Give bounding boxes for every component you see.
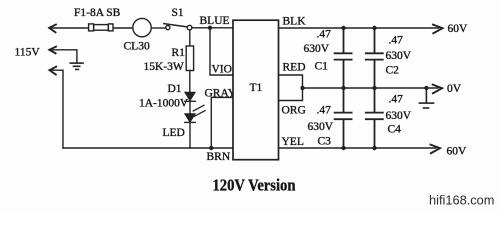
svg-text:BLUE: BLUE: [200, 15, 230, 27]
ground (mains earth): [70, 63, 83, 69]
resistor R1: [186, 46, 193, 71]
svg-text:.47: .47: [389, 35, 404, 47]
svg-text:C4: C4: [388, 124, 402, 136]
capacitor C2: [366, 28, 383, 88]
svg-text:YEL: YEL: [282, 136, 304, 148]
svg-text:115V: 115V: [15, 47, 41, 59]
node: C4 bottom: [372, 146, 376, 150]
svg-text:BLK: BLK: [283, 16, 307, 28]
svg-text:630V: 630V: [308, 121, 334, 133]
node: C2 top: [372, 26, 376, 30]
svg-text:F1-8A SB: F1-8A SB: [74, 7, 121, 19]
svg-text:C1: C1: [315, 61, 329, 73]
node: BLUE/VIO junction: [208, 26, 212, 30]
capacitor C3: [335, 88, 352, 148]
svg-text:0V: 0V: [447, 83, 462, 95]
svg-text:BRN: BRN: [207, 151, 231, 163]
node: C3 bottom: [341, 146, 345, 150]
node arrow 0V: [433, 85, 443, 94]
svg-text:hifi168.com: hifi168.com: [429, 193, 494, 208]
node: C2 bottom: [372, 86, 376, 90]
diode D1: [185, 92, 195, 101]
node arrow hot: [49, 25, 56, 33]
wire: junction down to VIO pin: [210, 28, 233, 75]
capacitor C4: [366, 88, 383, 148]
ground (0V): [419, 88, 433, 108]
node arrow 60V bottom: [431, 145, 441, 154]
wire: bottom rail (neutral) to BRN pin: [63, 147, 233, 149]
svg-text:CL30: CL30: [124, 41, 150, 53]
svg-text:LED: LED: [163, 127, 185, 139]
svg-text:60V: 60V: [448, 23, 469, 35]
node: 0V ground junction: [424, 86, 428, 90]
wire: BLK pin to +60V arrow: [279, 27, 439, 29]
node: RED/ORG junction: [300, 86, 304, 90]
svg-text:GRAY: GRAY: [205, 88, 237, 100]
wire: neutral left vertical and arrow: [51, 70, 63, 148]
svg-text:630V: 630V: [386, 50, 412, 62]
svg-text:.47: .47: [317, 105, 332, 117]
node: C1 top: [341, 26, 345, 30]
svg-text:60V: 60V: [447, 146, 468, 158]
wire: D1 to LED: [189, 101, 191, 114]
svg-text:R1: R1: [172, 47, 186, 59]
svg-text:VIO: VIO: [212, 64, 232, 76]
svg-text:120V Version: 120V Version: [213, 176, 296, 195]
wire: ORG pin to 0V junction: [279, 88, 303, 101]
svg-text:630V: 630V: [386, 110, 412, 122]
node arrow neutral: [50, 67, 57, 75]
svg-text:.47: .47: [317, 29, 332, 41]
switch S1: [164, 24, 192, 30]
LED: [185, 105, 205, 122]
svg-text:1A-1000V: 1A-1000V: [139, 98, 189, 110]
fuse F1: [89, 24, 113, 31]
node arrow 115V: [49, 47, 56, 54]
wire: CL30 to switch: [151, 27, 165, 29]
wire: switch to T1 BLUE pin: [192, 27, 233, 29]
node arrow 60V top: [433, 25, 443, 34]
wire: GRAY pin down to bottom rail: [211, 97, 233, 148]
wire: YEL pin to -60V arrow: [279, 147, 437, 149]
transformer T1: [233, 20, 279, 160]
wire: switch down to R1: [189, 30, 191, 46]
svg-text:630V: 630V: [304, 43, 330, 55]
wire: 115V arrow to ground stub: [51, 50, 77, 63]
node: C1 bottom: [341, 86, 345, 90]
wire: R1 to D1: [189, 71, 191, 93]
thermistor CL30: [133, 18, 151, 36]
svg-text:ORG: ORG: [282, 105, 306, 117]
wire: LED to bottom rail: [189, 122, 191, 148]
wire: RED pin to 0V junction: [279, 75, 303, 88]
svg-text:.47: .47: [389, 94, 404, 106]
wire: 0V rail: [303, 87, 439, 89]
svg-text:D1: D1: [168, 83, 182, 95]
node: GRAY/BRN junction: [209, 146, 213, 150]
svg-text:RED: RED: [283, 62, 306, 74]
svg-text:15K-3W: 15K-3W: [144, 61, 184, 73]
svg-text:C2: C2: [386, 65, 400, 77]
svg-text:C3: C3: [318, 136, 332, 148]
wire: fuse to CL30: [114, 27, 134, 29]
svg-text:S1: S1: [172, 7, 184, 19]
capacitor C1: [335, 28, 352, 88]
svg-text:T1: T1: [250, 82, 263, 94]
wire: AC hot lead left arrow to fuse: [52, 27, 89, 29]
